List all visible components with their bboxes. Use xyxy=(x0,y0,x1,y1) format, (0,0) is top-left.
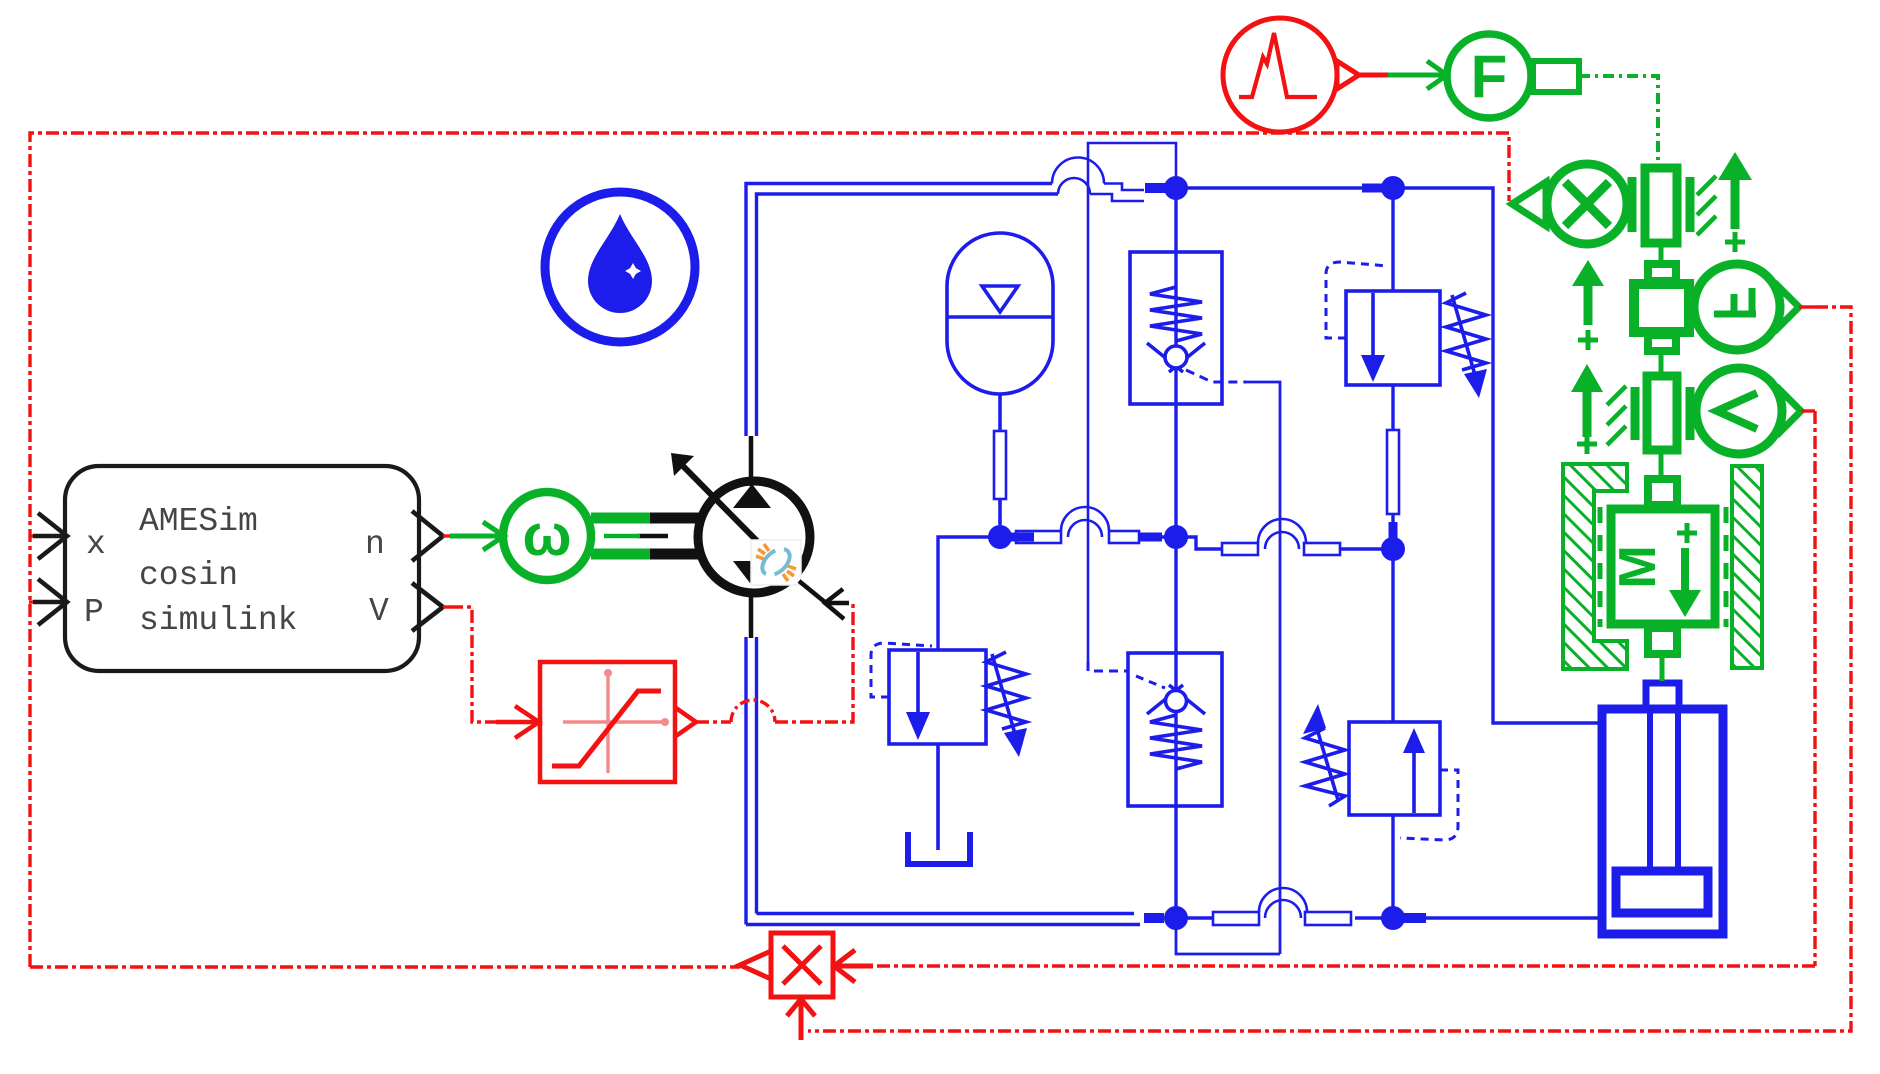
check valve 2 seat xyxy=(1147,685,1205,714)
X block right input arrow xyxy=(834,950,873,982)
damper 1 wall hatch xyxy=(1697,176,1716,235)
wire: top branch rectangle to pilot xyxy=(1088,143,1176,662)
svg-text:simulink: simulink xyxy=(139,602,297,639)
mass M assembly xyxy=(1563,464,1762,681)
wall bar right (hatched) xyxy=(1732,466,1762,668)
wire: saturation to pump control xyxy=(696,604,853,722)
damper 1 plus arrow xyxy=(1731,178,1740,229)
node: accumulator junction xyxy=(988,525,1012,549)
saturation body xyxy=(540,662,675,782)
capsule right of bottom bump xyxy=(1305,912,1351,925)
wire: pump bottom pipe (double) xyxy=(746,637,1140,925)
relief valve 1 adjust arrow xyxy=(1452,295,1475,375)
damper 1 left port bar xyxy=(1628,177,1637,232)
wire: mid bump arc xyxy=(1258,519,1306,549)
pump triangle bottom xyxy=(733,561,768,583)
pump shaft black section xyxy=(648,518,700,554)
wire: mid pipe xyxy=(938,537,1176,650)
wire: stub above junction C xyxy=(1389,522,1398,545)
wire: mass 1 to damper 2 xyxy=(1659,351,1664,372)
multiplier block X (bottom) xyxy=(740,933,873,1040)
force sensor output triangle xyxy=(1780,288,1799,326)
wire: bottom bump arc xyxy=(1259,888,1307,918)
wire: mass M to cylinder rod xyxy=(1660,654,1665,681)
svg-text:M: M xyxy=(1609,545,1667,588)
svg-text:n: n xyxy=(365,526,385,563)
saturation input arrow xyxy=(496,706,539,738)
check valve 2 ball xyxy=(1166,691,1187,712)
node: junction C below relief valve 1 xyxy=(1381,537,1405,561)
cylinder rod xyxy=(1650,712,1678,868)
damper 2 right port bar xyxy=(1686,387,1695,440)
X block body xyxy=(771,933,833,997)
svg-text:AMESim: AMESim xyxy=(139,503,258,540)
output port n chevron xyxy=(412,511,443,561)
rotary speed source omega xyxy=(503,492,650,580)
force source output box xyxy=(1533,61,1579,92)
friction dashes left xyxy=(1598,507,1603,627)
cylinder piston xyxy=(1616,871,1708,913)
shaft middle tick green xyxy=(604,534,640,539)
relief valve 3 (bottom right, reversed) xyxy=(1303,704,1458,840)
relief valve 3 body xyxy=(1349,722,1440,815)
relief valve 3 internal arrow xyxy=(1412,752,1416,813)
wire: top pipe single section to right corner and down to cylinder xyxy=(1176,188,1602,723)
wire: pump top pipe (double) xyxy=(746,184,1058,437)
wire: check valve column xyxy=(1174,188,1177,914)
wire: mid pipe stepped section to junction C xyxy=(1176,537,1393,549)
saturation axes xyxy=(563,674,664,773)
input arrow x xyxy=(33,513,67,559)
wire: bottom pipe to cylinder xyxy=(1426,916,1602,919)
ramp signal source (red circle) xyxy=(1223,18,1388,132)
damper 2 (with wall left) xyxy=(1571,364,1690,478)
mass 1 top tab xyxy=(1648,264,1676,281)
relief valve 1 internal arrow xyxy=(1371,293,1375,357)
wire: stub right of bottom junction B xyxy=(1403,913,1426,923)
wire: damper 2 to mass M xyxy=(1659,450,1664,478)
node: top junction A xyxy=(1164,176,1188,200)
mass 1 (small) xyxy=(1572,260,1689,372)
wire: red to green converter xyxy=(1356,73,1388,78)
saturation curve xyxy=(552,691,661,766)
pump circle xyxy=(698,481,810,593)
node: top junction B xyxy=(1381,176,1405,200)
X block left output triangle xyxy=(740,951,771,979)
mass M down arrow xyxy=(1681,548,1689,592)
capsule right of mid-left bump xyxy=(1109,531,1139,543)
mass 1 bottom tab xyxy=(1648,335,1676,351)
wire: green dash-dot to damper 1 xyxy=(1579,76,1658,163)
wire: pilot detour below bottom pipe xyxy=(1176,918,1280,954)
wire: red feedback bottom-left segment xyxy=(30,965,740,968)
wall bracket left (hatched) xyxy=(1563,464,1627,669)
shaft double green xyxy=(591,518,650,554)
relief valve 2 spring xyxy=(986,652,1026,729)
damper 2 left port bar xyxy=(1631,387,1640,440)
mass 1 body xyxy=(1634,284,1689,332)
wire: red stub from velocity sensor xyxy=(1801,409,1815,412)
relief valve 2 adjust arrow xyxy=(992,654,1015,734)
accumulator gas triangle xyxy=(982,286,1018,312)
wire: mid-left bump arc xyxy=(1061,507,1109,537)
svg-text:F: F xyxy=(1471,43,1508,110)
velocity sensor circle (rotated V) xyxy=(873,368,1815,966)
mass M bottom tab xyxy=(1648,628,1677,654)
multiplier input triangle xyxy=(1512,182,1546,226)
capsule left of mid bump xyxy=(1222,543,1258,555)
orifice below relief valve 1 xyxy=(1387,430,1399,514)
mass M plus xyxy=(1677,523,1697,543)
wire: red feedback border top/left xyxy=(30,133,1509,967)
pump triangle top xyxy=(733,484,771,508)
relief valve 1 pilot dashed xyxy=(1326,262,1388,338)
wire: bottom pipe mid section xyxy=(1176,916,1393,919)
cylinder rod top connector xyxy=(1646,683,1679,710)
pump port line bottom xyxy=(749,590,754,638)
relief valve 2 internal arrow xyxy=(916,652,920,714)
shaft middle tick black xyxy=(638,534,668,539)
input arrow P xyxy=(33,579,67,625)
hydraulic cylinder xyxy=(1602,683,1723,934)
wire: red stub from force sensor xyxy=(1799,305,1815,308)
wire: relief valve 2 to tank xyxy=(936,744,940,850)
mass 1 plus arrow (left) xyxy=(1584,284,1593,325)
X block bottom input arrow xyxy=(787,999,815,1040)
svg-text:x: x xyxy=(86,526,106,563)
mass M top tab xyxy=(1648,479,1677,505)
shaft line upper xyxy=(648,513,700,524)
damper 1 body xyxy=(1645,168,1677,243)
wire: stub left of bottom junction A xyxy=(1144,913,1164,923)
wire: relief valve 1 inlet column xyxy=(1391,188,1394,549)
ramp output triangle xyxy=(1337,61,1359,89)
wire: damper 1 to mass 1 xyxy=(1659,243,1664,265)
wire: red dash from force sensor to bottom xyxy=(808,307,1851,1031)
shaft line lower xyxy=(648,549,700,560)
multiplier circle with X xyxy=(1512,164,1627,244)
damper 2 body xyxy=(1647,376,1677,450)
check valve 2 body xyxy=(1128,653,1222,806)
saturation block xyxy=(496,604,853,782)
wire: red bump over pipes xyxy=(731,700,775,722)
check valve 1 body xyxy=(1130,252,1222,404)
tank symbol xyxy=(908,832,970,864)
relief valve 3 spring xyxy=(1305,728,1345,806)
wire: pilot riser x=1280 xyxy=(1246,382,1280,954)
pump variable arrow xyxy=(681,464,757,541)
capsule right of mid bump xyxy=(1304,543,1340,555)
svg-text:ω: ω xyxy=(523,503,572,568)
speed sensor arrow into omega xyxy=(450,522,504,550)
damper 1 right port bar xyxy=(1686,177,1695,232)
wire: red dash from velocity sensor down right side xyxy=(873,411,1815,966)
check valve 1 spring xyxy=(1150,287,1202,341)
wire: red input stub x xyxy=(29,534,36,537)
check valve 2 (pilot-operated, bottom) xyxy=(1128,653,1222,806)
svg-text:V: V xyxy=(369,593,389,630)
AMESim-simulink interface block xyxy=(65,466,419,671)
capsule left of mid-left bump xyxy=(1016,531,1061,543)
check valve 2 spring xyxy=(1150,715,1202,769)
svg-text:cosin: cosin xyxy=(139,557,238,594)
capsule left of bottom bump xyxy=(1213,912,1259,925)
svg-text:P: P xyxy=(84,594,104,631)
wire: accumulator stem xyxy=(998,394,1002,525)
friction dashes right xyxy=(1724,507,1729,627)
force sensor circle (rotated F) xyxy=(808,264,1851,1031)
wire: column junction C to relief valve 3 and bottom xyxy=(1391,549,1394,914)
variable displacement pump xyxy=(671,436,810,638)
wire: V output to saturation xyxy=(443,607,496,722)
damper 2 plus arrow xyxy=(1583,390,1592,437)
relief valve 2 body xyxy=(889,650,986,744)
force source F circle xyxy=(1447,34,1658,163)
relief valve 1 spring xyxy=(1446,293,1486,370)
wire: pilot dashed into check valve 2 xyxy=(1088,662,1128,671)
output port V chevron xyxy=(412,583,443,631)
damper 1 (force element) xyxy=(1632,152,1752,265)
check valve 1 seat xyxy=(1147,343,1205,372)
wire: stub left of junction B xyxy=(1362,184,1383,193)
AMESim drop logo xyxy=(545,192,695,342)
relief valve 1 body xyxy=(1346,291,1440,385)
arrow into force source F xyxy=(1388,61,1447,89)
mass M body xyxy=(1611,509,1715,624)
velocity sensor output triangle xyxy=(1782,392,1801,430)
node: bottom junction B xyxy=(1381,906,1405,930)
accumulator body xyxy=(947,233,1053,394)
wire: red stub at n port xyxy=(443,534,450,537)
wire: dashed pilot of check valve 1 xyxy=(1186,370,1246,382)
broken-link icon overlay xyxy=(751,540,801,585)
node: mid junction xyxy=(1164,525,1188,549)
ramp waveform xyxy=(1239,33,1317,97)
relief valve 2 (to tank) xyxy=(871,643,1027,864)
cylinder body xyxy=(1602,709,1723,934)
check valve 1 (pilot-operated, top) xyxy=(1130,252,1222,404)
pump control arrow (black) xyxy=(799,581,849,619)
wire: stub right of accumulator junction xyxy=(1010,533,1034,542)
wire: stub left of mid junction xyxy=(1140,533,1162,542)
relief valve 3 adjust arrow xyxy=(1315,722,1338,800)
X block cross xyxy=(783,946,821,984)
wire: red input stub P xyxy=(29,600,36,603)
check valve 1 ball xyxy=(1165,346,1187,368)
relief valve 1 (top right) xyxy=(1326,262,1487,514)
saturation output chevron xyxy=(676,708,696,736)
relief valve 3 pilot dashed xyxy=(1400,770,1458,840)
wire: top pipe bump over pilot line xyxy=(1052,158,1144,202)
relief valve 2 pilot dashed xyxy=(871,643,932,697)
accumulator xyxy=(947,233,1053,525)
pump port line top xyxy=(749,436,754,486)
node: bottom junction A xyxy=(1164,906,1188,930)
check valve 2 pilot dashes inside xyxy=(1136,676,1165,688)
damper 2 wall hatch left xyxy=(1607,386,1626,445)
orifice below accumulator xyxy=(994,431,1006,499)
